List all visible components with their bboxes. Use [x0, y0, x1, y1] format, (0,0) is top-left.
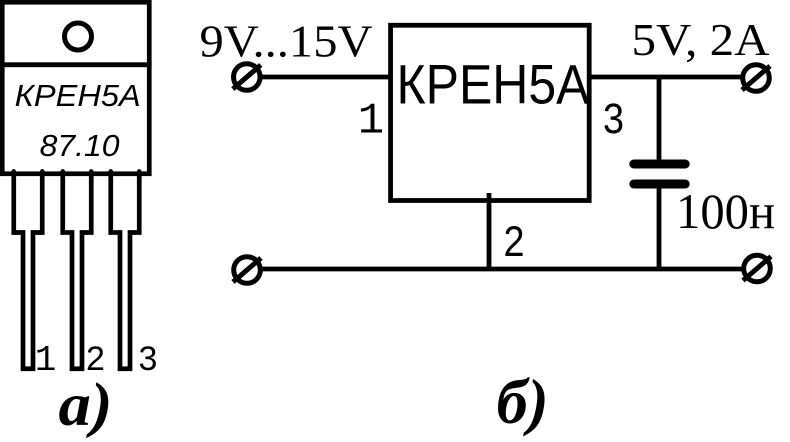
svg-text:2: 2 [504, 218, 525, 266]
svg-text:а): а) [59, 372, 113, 439]
svg-text:1: 1 [35, 340, 57, 381]
svg-text:100н: 100н [676, 183, 775, 239]
svg-text:5V, 2А: 5V, 2А [632, 14, 770, 65]
svg-text:3: 3 [603, 95, 624, 143]
svg-text:КРЕН5А: КРЕН5А [397, 53, 591, 116]
svg-text:КРЕН5А: КРЕН5А [15, 78, 141, 113]
svg-text:3: 3 [139, 340, 158, 378]
svg-text:б): б) [497, 366, 549, 437]
svg-text:9V...15V: 9V...15V [200, 16, 373, 67]
svg-text:1: 1 [358, 97, 384, 147]
svg-text:87.10: 87.10 [40, 128, 120, 163]
